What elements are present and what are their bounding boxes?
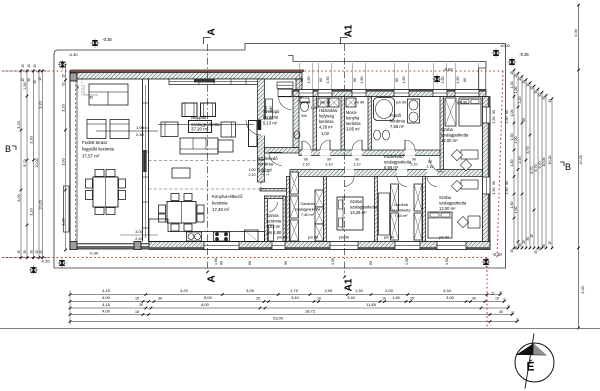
szoba13 cabinet [379, 193, 390, 235]
corridor south wall / bedroom wing north wall [290, 170, 483, 177]
svg-text:15: 15 [38, 77, 42, 81]
svg-text:pm 90: pm 90 [439, 236, 450, 240]
svg-text:10,00: 10,00 [542, 158, 546, 167]
svg-text:1,50: 1,50 [505, 188, 509, 195]
svg-text:A: A [206, 28, 218, 36]
svg-text:pm 90: pm 90 [396, 101, 407, 105]
terrace south edge [70, 243, 149, 245]
svg-text:90: 90 [492, 110, 496, 114]
svg-text:-0.35: -0.35 [40, 259, 50, 264]
svg-text:6,66 m²: 6,66 m² [384, 165, 399, 170]
svg-text:30: 30 [507, 305, 511, 309]
door living-szelfogo [257, 120, 265, 136]
furdo toilet bidet [374, 130, 381, 140]
porch slab outline [288, 56, 486, 90]
svg-text:90: 90 [412, 158, 416, 162]
window extension lines top [299, 63, 301, 90]
svg-text:B: B [5, 144, 11, 154]
svg-text:18,72: 18,72 [305, 309, 316, 314]
windows top wall right wing [299, 90, 313, 97]
svg-text:15: 15 [510, 71, 514, 75]
svg-text:1,50: 1,50 [505, 117, 509, 124]
svg-text:30: 30 [499, 310, 503, 314]
svg-text:60: 60 [463, 78, 467, 82]
svg-text:2,45: 2,45 [518, 157, 522, 164]
svg-text:2,10: 2,10 [326, 163, 333, 167]
svg-text:15: 15 [135, 297, 139, 301]
svg-text:1,50: 1,50 [307, 77, 311, 84]
door mosokonyha [352, 150, 362, 156]
svg-text:15: 15 [27, 64, 31, 68]
svg-text:30: 30 [542, 96, 546, 100]
red dashed plot line right [497, 71, 503, 258]
svg-text:A1: A1 [344, 24, 355, 37]
kamra east wall [283, 196, 286, 242]
svg-text:Kamra: Kamra [267, 213, 280, 218]
svg-text:4,00: 4,00 [514, 207, 518, 214]
svg-text:9,70: 9,70 [23, 159, 27, 166]
glazed wall terrace/living [142, 79, 144, 242]
svg-text:kerámia: kerámia [258, 162, 274, 167]
svg-text:4,00: 4,00 [102, 295, 111, 300]
svg-text:1,50: 1,50 [402, 77, 406, 84]
red dotted level line top [2, 70, 503, 72]
svg-text:11,85: 11,85 [366, 302, 376, 307]
right exterior wall [483, 97, 491, 250]
north arrow compass [515, 334, 554, 389]
bottom row2 [69, 300, 72, 303]
svg-text:15: 15 [21, 78, 25, 82]
svg-text:pm 1,80: pm 1,80 [267, 230, 283, 235]
svg-text:1,50: 1,50 [445, 258, 449, 265]
svg-text:4,28 m²: 4,28 m² [319, 125, 334, 130]
svg-text:90: 90 [492, 181, 496, 185]
kitchen chairs [171, 194, 179, 201]
terrace sofa [89, 84, 128, 105]
svg-text:12,00 m²: 12,00 m² [439, 206, 456, 211]
svg-text:Fürdő: Fürdő [390, 113, 402, 118]
svg-text:10: 10 [382, 297, 386, 301]
door szoba-12 north [430, 158, 444, 172]
svg-text:90: 90 [327, 158, 331, 162]
svg-text:-0.30: -0.30 [492, 252, 502, 257]
svg-text:A1: A1 [344, 278, 355, 291]
svg-text:pm 90: pm 90 [354, 101, 365, 105]
wall szelfogo/wc vertical [293, 97, 299, 148]
szoba-tr desk [461, 150, 478, 159]
szoba-br desk [461, 180, 478, 189]
svg-text:pm 90: pm 90 [308, 236, 319, 240]
svg-text:25: 25 [256, 297, 260, 301]
svg-text:szalagparketta: szalagparketta [350, 205, 378, 210]
red dotted level line bottom [2, 257, 487, 259]
svg-text:kerámia: kerámia [390, 119, 406, 124]
living sofa bottom [180, 138, 218, 154]
svg-text:1,50: 1,50 [331, 258, 335, 265]
svg-text:pm 90: pm 90 [384, 236, 395, 240]
right wall dark edge [488, 97, 490, 250]
svg-text:15: 15 [135, 310, 139, 314]
svg-text:3,00: 3,00 [446, 295, 455, 300]
svg-text:30: 30 [534, 90, 538, 94]
svg-text:3,30: 3,30 [30, 136, 34, 143]
svg-text:50: 50 [62, 82, 66, 86]
svg-text:30: 30 [139, 303, 143, 307]
svg-text:2,00: 2,00 [385, 288, 394, 293]
svg-text:3,20: 3,20 [30, 208, 34, 215]
living tv cabinet [249, 121, 258, 147]
top wall terrace+living [70, 73, 302, 80]
door szoba-13 [344, 169, 354, 177]
wall corner projection line [485, 68, 487, 90]
svg-text:fagyálló kerámia: fagyálló kerámia [82, 147, 115, 152]
right dimension chains [513, 70, 515, 249]
svg-text:15: 15 [516, 318, 520, 322]
door kamra [269, 202, 277, 212]
elevation marker top-right -035 [508, 58, 517, 67]
corridor north wall [299, 150, 440, 156]
svg-text:helyiség: helyiség [319, 114, 335, 119]
svg-text:6,00: 6,00 [204, 295, 213, 300]
svg-text:4,15: 4,15 [102, 288, 111, 293]
svg-text:3,05: 3,05 [246, 288, 255, 293]
svg-text:4,00: 4,00 [102, 309, 111, 314]
svg-text:1,00: 1,00 [136, 125, 145, 130]
bottom row1 [69, 293, 72, 296]
windows right wall [483, 107, 491, 123]
svg-text:1,60: 1,60 [392, 295, 400, 300]
door wc [302, 150, 311, 156]
svg-text:25: 25 [410, 297, 414, 301]
elevation marker top-right-62 [433, 75, 442, 84]
svg-text:30: 30 [30, 250, 34, 254]
svg-text:1,50: 1,50 [492, 188, 496, 195]
kitchen counter [149, 219, 265, 242]
svg-text:4,15: 4,15 [102, 302, 111, 307]
svg-text:90: 90 [304, 158, 308, 162]
svg-text:4,34: 4,34 [443, 288, 452, 293]
svg-text:5,13 m²: 5,13 m² [263, 121, 278, 126]
svg-text:60: 60 [369, 261, 373, 265]
svg-text:-0.30: -0.30 [68, 52, 78, 57]
bottom border line [0, 328, 600, 330]
svg-text:Szoba: Szoba [439, 195, 452, 200]
svg-text:2,10: 2,10 [249, 173, 256, 177]
svg-text:4,00: 4,00 [514, 137, 518, 144]
svg-text:15: 15 [526, 83, 530, 87]
svg-text:1,50: 1,50 [405, 258, 409, 265]
svg-text:10,26: 10,26 [579, 155, 583, 165]
svg-text:konyha: konyha [346, 116, 360, 121]
terrace leader 1,00/2,40 [96, 130, 158, 132]
svg-text:2,10: 2,10 [354, 163, 361, 167]
elevation marker top-left wall [58, 60, 67, 69]
svg-text:kerámia: kerámia [267, 219, 282, 224]
svg-text:1,30: 1,30 [355, 288, 364, 293]
svg-text:10: 10 [317, 297, 321, 301]
wall kitchen/kamra [265, 196, 268, 242]
svg-text:2,10: 2,10 [427, 165, 434, 169]
svg-text:Szoba: Szoba [350, 199, 363, 204]
kitchen fridge [245, 230, 259, 242]
svg-text:12,00 m²: 12,00 m² [441, 138, 458, 143]
wall furdo/szoba [440, 97, 444, 170]
svg-text:±0,00: ±0,00 [500, 44, 509, 48]
svg-text:2,40: 2,40 [136, 132, 145, 137]
door gardrob2 [397, 169, 407, 177]
kitchen stove [214, 232, 230, 241]
terrace chairs [86, 179, 93, 188]
svg-text:1,50: 1,50 [492, 117, 496, 124]
svg-text:15: 15 [548, 241, 552, 245]
svg-text:Nappali: Nappali [191, 115, 206, 120]
roof eaves outline [54, 44, 506, 269]
furdo basins [408, 99, 420, 123]
door szoba-12 south [427, 169, 437, 177]
svg-text:szalagparketta: szalagparketta [441, 133, 469, 138]
bottom dimension chains [70, 294, 500, 296]
svg-text:60: 60 [353, 78, 357, 82]
svg-text:7,64 m²: 7,64 m² [394, 213, 408, 218]
kozlekedo1 south wall [260, 189, 290, 192]
living small table [172, 168, 190, 178]
right chain ticks [513, 69, 516, 72]
svg-text:kerámia: kerámia [319, 119, 334, 124]
kitchen partition dims [120, 234, 158, 236]
svg-text:3,85 m²: 3,85 m² [346, 127, 361, 132]
elevation marker bottom-right [482, 258, 491, 267]
svg-text:3,00: 3,00 [62, 158, 66, 165]
svg-text:2,10: 2,10 [411, 163, 418, 167]
svg-text:37,57 m²: 37,57 m² [82, 154, 100, 159]
svg-text:5,32 m²: 5,32 m² [258, 168, 273, 173]
wall szelfogo south + kozlekedo [265, 148, 300, 154]
svg-text:pm 90: pm 90 [300, 101, 311, 105]
svg-text:-0.62: -0.62 [443, 67, 453, 72]
svg-text:1,00: 1,00 [510, 110, 514, 117]
section line A-A [207, 44, 209, 272]
bottom wall dark edge [70, 247, 490, 249]
svg-text:1,00: 1,00 [264, 106, 268, 113]
haztartasi washer [318, 98, 328, 107]
windows bottom wall [204, 242, 239, 250]
svg-text:1,35: 1,35 [311, 106, 318, 110]
svg-text:A: A [206, 275, 218, 283]
dashed boundary living/kitchen [149, 160, 258, 162]
living coffee table with label [189, 121, 212, 133]
szoba-tr wardrobe [445, 98, 456, 126]
svg-text:30: 30 [23, 250, 27, 254]
svg-text:15: 15 [495, 297, 499, 301]
svg-text:15: 15 [62, 74, 66, 78]
svg-text:90: 90 [505, 181, 509, 185]
svg-text:60: 60 [319, 78, 323, 82]
svg-text:60: 60 [395, 78, 399, 82]
svg-text:10,26: 10,26 [39, 200, 43, 210]
svg-text:szalagparketta: szalagparketta [295, 207, 321, 212]
svg-text:1,50: 1,50 [441, 77, 445, 84]
svg-text:-0.30: -0.30 [89, 251, 99, 256]
svg-text:pm 90: pm 90 [339, 236, 350, 240]
top wall right wing [293, 90, 486, 97]
svg-text:3,20: 3,20 [17, 121, 21, 128]
svg-text:3,40: 3,40 [347, 295, 355, 300]
living armchairs top [182, 103, 197, 117]
terrace posts [70, 73, 77, 81]
svg-text:3,00: 3,00 [135, 230, 142, 234]
kitchen table [167, 202, 196, 224]
svg-text:pm 90: pm 90 [277, 236, 288, 240]
svg-text:23,00: 23,00 [273, 316, 284, 321]
svg-text:3,20: 3,20 [39, 101, 43, 108]
terrace dining table [93, 177, 118, 207]
svg-text:B: B [565, 162, 571, 172]
svg-text:15: 15 [21, 64, 25, 68]
svg-text:sz.parketta: sz.parketta [391, 208, 411, 213]
svg-text:60: 60 [300, 78, 304, 82]
svg-text:3,20: 3,20 [62, 218, 66, 225]
svg-text:7,55 m²: 7,55 m² [390, 124, 405, 129]
svg-text:15: 15 [503, 298, 507, 302]
bottom row3 [69, 307, 72, 310]
svg-text:3,00: 3,00 [17, 194, 21, 201]
wall szoba13/gardrob2 [375, 177, 378, 242]
svg-text:1,02: 1,02 [321, 131, 330, 136]
svg-text:Háztartási: Háztartási [319, 108, 338, 113]
svg-text:30: 30 [27, 78, 31, 82]
svg-text:10,26: 10,26 [548, 156, 552, 165]
left inner dim line [65, 64, 67, 250]
bottom row4 [69, 313, 72, 316]
svg-text:kerámia: kerámia [346, 121, 361, 126]
wc toilet [300, 98, 309, 103]
living side chair right [221, 122, 236, 137]
wall wc/haztartasi [313, 97, 317, 151]
svg-text:15: 15 [522, 80, 526, 84]
wc sink [294, 131, 300, 139]
svg-text:15: 15 [530, 86, 534, 90]
szoba-br bed [428, 212, 452, 238]
szelfogo cabinet [266, 99, 273, 119]
svg-text:15: 15 [499, 291, 503, 295]
svg-text:kerámia: kerámia [212, 201, 228, 206]
svg-text:90: 90 [284, 261, 288, 265]
wall gardrob/szoba13 [324, 177, 327, 242]
section line A1-A1 [344, 44, 346, 277]
svg-text:1,00: 1,00 [249, 168, 256, 172]
mosokonyha washer [346, 98, 356, 107]
svg-text:pm 90: pm 90 [320, 101, 331, 105]
furdo bathtub [374, 98, 395, 121]
svg-text:60: 60 [248, 261, 252, 265]
elevation marker bottom mid [58, 259, 67, 268]
svg-text:1,60: 1,60 [214, 258, 218, 265]
svg-text:8,70: 8,70 [526, 147, 530, 154]
bottom wall [149, 242, 490, 250]
svg-text:37,20 m²: 37,20 m² [191, 127, 209, 132]
svg-text:2,10: 2,10 [303, 163, 310, 167]
door furdo [405, 150, 415, 156]
svg-text:Szoba: Szoba [441, 127, 454, 132]
svg-text:szalagparketta: szalagparketta [384, 160, 412, 165]
svg-text:4,00: 4,00 [581, 286, 585, 293]
svg-text:30: 30 [542, 244, 546, 248]
svg-text:7,40 m²: 7,40 m² [301, 212, 315, 217]
svg-text:60: 60 [220, 261, 224, 265]
wall gardrob2/szoba12 [423, 177, 426, 242]
terrace west edge [69, 71, 71, 250]
svg-text:Közlekedő: Közlekedő [384, 154, 404, 159]
wall mosokonyha/furdo [368, 97, 372, 151]
svg-text:30: 30 [158, 297, 162, 301]
svg-text:3,20: 3,20 [62, 104, 66, 111]
svg-text:15: 15 [491, 292, 495, 296]
svg-text:1,50: 1,50 [326, 77, 330, 84]
svg-text:1,50: 1,50 [23, 82, 27, 89]
kitchen sink [187, 232, 202, 241]
svg-text:30: 30 [76, 85, 80, 89]
svg-text:15: 15 [548, 99, 552, 103]
top wall brown eaves band [70, 70, 304, 73]
red dashed line to north arrow [486, 258, 488, 328]
svg-text:30: 30 [89, 96, 93, 100]
living side chair left [161, 122, 178, 137]
wall haztartasi/mosokonyha [341, 97, 345, 151]
szoba13 bed [337, 197, 363, 230]
door haztartasi [320, 150, 330, 156]
svg-text:2,40: 2,40 [135, 237, 142, 241]
elevation marker top-left outer [91, 39, 100, 48]
wall kamra/gardrob [287, 177, 290, 242]
svg-text:4,00: 4,00 [574, 29, 578, 36]
svg-text:30: 30 [511, 311, 515, 315]
svg-text:30: 30 [472, 297, 476, 301]
svg-text:pm 90: pm 90 [457, 101, 468, 105]
svg-text:Mosó-: Mosó- [346, 110, 358, 115]
terrace top dim marks [76, 85, 78, 95]
svg-text:13,26 m²: 13,26 m² [350, 210, 367, 215]
svg-text:Gardrób: Gardrób [394, 202, 408, 207]
svg-text:30: 30 [33, 80, 37, 84]
top wall right wing dark edge [293, 90, 486, 92]
entry door opening [278, 89, 292, 97]
living room glazed facade top [169, 79, 260, 85]
svg-text:szalagparketta: szalagparketta [439, 201, 467, 206]
svg-text:45: 45 [39, 250, 43, 254]
bottom row5 [69, 320, 72, 323]
svg-text:10,00: 10,00 [35, 158, 39, 168]
svg-text:-0.35: -0.35 [519, 52, 529, 57]
svg-text:-0.35: -0.35 [102, 37, 112, 42]
svg-text:1,50: 1,50 [360, 77, 364, 84]
svg-text:Wc: Wc [301, 113, 307, 118]
entry threshold steps [277, 82, 293, 89]
elevation marker top-right 0 [492, 49, 501, 58]
gardrob2 wardrobes [391, 184, 399, 211]
left dimension chains [20, 69, 22, 260]
svg-text:2,05: 2,05 [325, 288, 334, 293]
svg-text:1,50: 1,50 [456, 77, 460, 84]
wall living/hall [258, 79, 265, 120]
gardrob1 wardrobes [290, 172, 299, 194]
svg-text:Gardrób: Gardrób [300, 201, 314, 206]
svg-text:3,40: 3,40 [291, 295, 300, 300]
svg-text:Konyha+étkező: Konyha+étkező [212, 194, 243, 199]
svg-text:30: 30 [538, 93, 542, 97]
terrace planter [64, 186, 70, 232]
elevation marker bottom-left [29, 266, 38, 275]
svg-text:1,75: 1,75 [290, 288, 299, 293]
